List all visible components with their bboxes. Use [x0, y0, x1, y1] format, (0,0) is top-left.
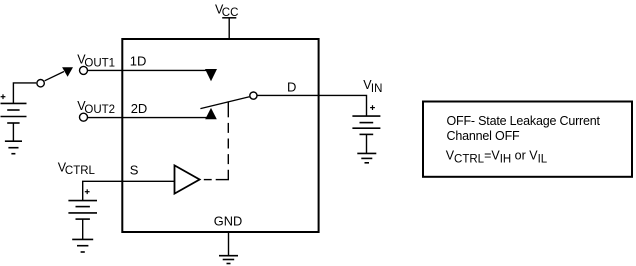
svg-text:IN: IN [371, 83, 383, 95]
label VOUT2 [77, 99, 115, 116]
svg-text:CC: CC [222, 7, 239, 19]
wire V1 to switch S1 [13, 83, 36, 104]
svg-text:Channel OFF: Channel OFF [447, 129, 521, 143]
svg-text:CTRL: CTRL [65, 165, 96, 177]
ground symbol (GND pin) [219, 256, 238, 264]
wire VCTRL to buffer [83, 181, 175, 200]
wire V2 to ground [82, 219, 84, 239]
arrowhead 2D (channel 2 contact) [205, 108, 217, 119]
battery V1 (left source) [1, 103, 27, 123]
plus sign V3 [370, 105, 375, 110]
svg-text:OFF- State Leakage Current: OFF- State Leakage Current [447, 114, 601, 128]
dashed control link (switch actuator) vertical [227, 101, 229, 180]
ground symbol (V3) [357, 153, 376, 162]
label VOUT1 [77, 52, 115, 69]
svg-text:D: D [287, 80, 296, 95]
wire D to VIN [257, 95, 366, 116]
switch S1 blade [45, 72, 64, 81]
wire VCC to box [228, 18, 230, 39]
terminal VOUT2 [80, 113, 88, 121]
svg-text:1D: 1D [130, 54, 147, 69]
ground symbol (V2) [72, 239, 93, 252]
wire V3 to ground [366, 134, 368, 153]
svg-text:OUT1: OUT1 [84, 57, 115, 69]
terminal VOUT1 [80, 66, 88, 74]
annotation note box [423, 102, 632, 177]
switch S2 pole circle [250, 92, 257, 99]
device under test box U1 [122, 39, 318, 232]
ground symbol (V1) [5, 141, 22, 154]
wire VOUT2 to 2D arrow [88, 117, 209, 119]
switch S1 arrowhead [62, 67, 73, 76]
battery V3 (VIN source) [352, 116, 380, 134]
plus sign V2 [85, 189, 90, 194]
plus sign V1 [1, 94, 6, 99]
switch S2 blade (internal switch) [200, 97, 249, 109]
svg-text:2D: 2D [131, 101, 148, 116]
wire GND pin to ground [228, 232, 230, 256]
label VIN [363, 78, 382, 95]
battery V2 (VCTRL source) [68, 201, 97, 220]
dashed control link horizontal [204, 179, 229, 181]
arrowhead 1D (channel 1 contact) [205, 69, 217, 81]
svg-text:GND: GND [214, 213, 242, 228]
VCC supply bar [222, 17, 236, 19]
buffer U2 (control driver) [175, 165, 200, 193]
label VCTRL [58, 160, 96, 177]
svg-text:OUT2: OUT2 [84, 104, 115, 116]
label VCC [215, 2, 238, 19]
wire VOUT1 to 1D arrow [88, 69, 210, 71]
wire V1 to ground [12, 123, 14, 141]
switch S1 pole [37, 80, 44, 87]
svg-text:S: S [130, 163, 139, 178]
